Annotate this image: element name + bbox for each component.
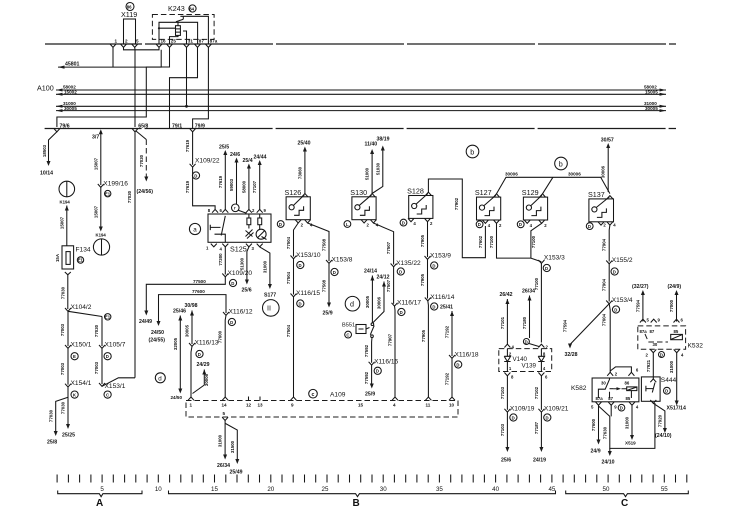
svg-text:D: D — [478, 222, 481, 227]
svg-text:86: 86 — [127, 4, 132, 9]
svg-text:77107: 77107 — [252, 180, 257, 193]
svg-text:77508: 77508 — [322, 238, 327, 251]
svg-text:77030: 77030 — [139, 154, 144, 167]
wire 31000 to 26/34 — [224, 421, 226, 457]
node X153/1 — [99, 383, 105, 386]
svg-text:D: D — [399, 269, 402, 274]
svg-text:15A: 15A — [55, 253, 60, 262]
svg-text:d: d — [350, 300, 354, 309]
svg-text:30005: 30005 — [645, 106, 658, 111]
circle C — [345, 331, 352, 338]
svg-text:1: 1 — [190, 403, 193, 408]
wire 77600 to A109 pin14 — [224, 315, 227, 397]
svg-text:77103: 77103 — [500, 386, 505, 399]
svg-text:55: 55 — [661, 486, 668, 493]
K243 internal: coil feed with junction dot — [158, 27, 160, 29]
svg-text:31500: 31500 — [230, 440, 235, 453]
wire 77003 — [67, 348, 69, 384]
K532 bottom terminals — [650, 349, 656, 352]
svg-text:b: b — [559, 159, 563, 168]
svg-text:79/1: 79/1 — [172, 123, 182, 129]
svg-text:77592: 77592 — [364, 371, 369, 384]
svg-text:77602: 77602 — [478, 235, 483, 248]
wire 77907 to A109 pin4 — [394, 306, 397, 397]
wire 77905 — [427, 259, 429, 298]
svg-text:38/19: 38/19 — [377, 137, 390, 143]
svg-text:F134: F134 — [76, 247, 91, 254]
svg-text:77600: 77600 — [192, 289, 205, 294]
svg-text:X153/3: X153/3 — [544, 255, 565, 262]
svg-text:65/8: 65/8 — [138, 123, 148, 129]
wire 77504 to A109 pin9 — [293, 297, 295, 397]
svg-text:35: 35 — [436, 486, 443, 493]
svg-text:5: 5 — [100, 486, 104, 493]
circle 84 — [189, 5, 196, 12]
K243 internal: coil to pin 25 — [170, 35, 179, 44]
node X154/1 — [65, 384, 71, 387]
svg-text:40: 40 — [492, 486, 499, 493]
circle E1 — [105, 314, 111, 320]
wire 77504 pin2 — [294, 223, 299, 257]
svg-text:X116/15: X116/15 — [296, 290, 320, 297]
svg-text:30/98: 30/98 — [185, 303, 198, 309]
svg-text:77300: 77300 — [218, 253, 223, 266]
svg-text:77101: 77101 — [500, 316, 505, 329]
svg-text:D: D — [588, 224, 591, 229]
wire 77594 X153/4 to 32/28 — [570, 304, 609, 345]
svg-text:20: 20 — [267, 486, 274, 493]
svg-text:31000: 31000 — [218, 434, 223, 447]
wire 77100 pin2 to X153/3 — [531, 223, 542, 258]
svg-text:77102: 77102 — [534, 386, 539, 399]
svg-text:D: D — [546, 415, 549, 420]
svg-text:S444: S444 — [661, 377, 677, 384]
svg-text:K194: K194 — [96, 233, 107, 238]
control unit S125 — [208, 214, 271, 242]
svg-text:X116/16: X116/16 — [374, 358, 398, 365]
node X153/8 — [326, 260, 332, 263]
svg-text:59003: 59003 — [229, 178, 234, 191]
S125 internals transistor — [210, 225, 220, 230]
svg-text:E: E — [73, 354, 76, 359]
wire 77592 to X116/16 — [371, 338, 373, 363]
svg-text:77600: 77600 — [591, 418, 596, 431]
wire 59003 to 24/6 — [236, 161, 238, 204]
svg-text:a: a — [193, 226, 197, 233]
svg-text:D: D — [525, 339, 528, 344]
node X109/22 — [190, 164, 196, 167]
circle E — [71, 353, 78, 360]
svg-text:24/19: 24/19 — [533, 458, 546, 464]
node 3/7 arrow — [99, 129, 103, 134]
svg-text:X150/1: X150/1 — [71, 342, 92, 349]
A109 pin ticks — [188, 397, 194, 400]
svg-text:32/28: 32/28 — [565, 352, 578, 358]
svg-text:X104/2: X104/2 — [71, 304, 92, 311]
wire 77600 to X116/12 and 24/50 — [159, 295, 227, 323]
svg-text:A: A — [96, 498, 103, 509]
svg-text:D: D — [545, 266, 548, 271]
svg-text:D: D — [519, 222, 522, 227]
wire 77107 pin9 to 24/44 — [259, 164, 261, 210]
S128 bottom terminals — [400, 219, 407, 226]
circle D — [104, 353, 111, 360]
svg-text:X519: X519 — [625, 441, 636, 446]
node X199/16 — [98, 184, 104, 187]
S125 lamp — [256, 229, 266, 239]
wire 73060 to 25/40 — [304, 150, 306, 194]
node X116/14 — [425, 298, 431, 301]
svg-text:A100: A100 — [37, 84, 54, 93]
K243 switch arm — [176, 19, 183, 26]
wire 15007 down arrow — [100, 187, 102, 228]
sensor B551 box — [356, 325, 366, 334]
svg-text:E1: E1 — [105, 191, 111, 196]
switch S137 — [589, 199, 614, 222]
svg-text:87a: 87a — [640, 329, 648, 334]
svg-text:X116/18: X116/18 — [455, 352, 479, 359]
svg-text:L: L — [346, 222, 349, 227]
section bracket B — [169, 491, 556, 497]
svg-text:87a: 87a — [596, 396, 604, 401]
svg-text:S126: S126 — [285, 188, 302, 197]
svg-text:77630: 77630 — [602, 426, 607, 439]
S137 bottom terminals — [586, 223, 593, 230]
svg-text:84: 84 — [189, 6, 194, 11]
wire 58000 pin2 to 25/4 — [248, 167, 250, 209]
wire 77103 to 25/6 — [506, 412, 508, 448]
switch S444 — [641, 377, 660, 401]
wire 15007 to F134 — [66, 206, 68, 246]
node X116/15 — [291, 294, 297, 297]
svg-text:45: 45 — [548, 486, 555, 493]
svg-text:58000: 58000 — [241, 180, 246, 193]
svg-text:D: D — [402, 220, 405, 225]
svg-text:D: D — [194, 173, 197, 178]
circle E1 — [105, 190, 111, 196]
svg-text:25/46: 25/46 — [173, 309, 186, 315]
wire 77003 — [101, 348, 103, 384]
svg-text:K243: K243 — [168, 4, 185, 13]
svg-text:31000: 31000 — [262, 260, 267, 273]
svg-text:77504: 77504 — [286, 271, 291, 284]
svg-text:25/41: 25/41 — [440, 305, 453, 311]
svg-text:77030: 77030 — [61, 286, 66, 299]
S126 bottom terminals — [277, 221, 284, 228]
svg-text:86: 86 — [625, 381, 630, 386]
wire 30005 — [56, 110, 666, 112]
svg-text:24/10: 24/10 — [602, 460, 615, 466]
svg-text:D: D — [665, 389, 668, 394]
wire 77504 — [293, 259, 295, 295]
svg-text:X153/4: X153/4 — [612, 297, 633, 304]
svg-text:77619: 77619 — [218, 175, 223, 188]
svg-text:77100: 77100 — [531, 235, 536, 248]
svg-text:(32/27): (32/27) — [632, 284, 649, 290]
switch S128 — [409, 196, 433, 219]
wire 77103 to X109/19 — [506, 376, 508, 410]
node X135/22 — [391, 264, 397, 267]
wire 77630 loop to S444 and 24/10 — [599, 403, 655, 448]
svg-text:D: D — [231, 281, 234, 286]
svg-text:D: D — [299, 301, 302, 306]
wire 15007 from 3/7 — [100, 131, 102, 185]
node X153/4 — [606, 301, 612, 304]
wire 77508 pin4 to X153/8 — [308, 223, 329, 261]
S129 bottom terminals — [517, 221, 524, 228]
svg-text:D: D — [432, 263, 435, 268]
circle D inline — [523, 339, 529, 345]
svg-text:79/9: 79/9 — [195, 123, 205, 129]
svg-text:30005: 30005 — [64, 106, 77, 111]
svg-text:30: 30 — [653, 342, 658, 347]
svg-text:D: D — [512, 415, 515, 420]
S125 diode — [246, 230, 254, 239]
svg-text:77902: 77902 — [454, 197, 459, 210]
circle d left — [155, 373, 165, 383]
svg-text:87a: 87a — [210, 39, 218, 44]
svg-text:V139: V139 — [522, 363, 537, 370]
svg-text:K532: K532 — [688, 343, 704, 350]
svg-text:X105/7: X105/7 — [105, 342, 126, 349]
svg-text:1: 1 — [115, 39, 118, 44]
svg-text:10: 10 — [155, 486, 162, 493]
svg-text:25/9: 25/9 — [323, 311, 333, 317]
svg-text:S128: S128 — [407, 187, 424, 196]
svg-text:25/8: 25/8 — [47, 440, 57, 446]
S127 bottom terminals — [476, 221, 483, 228]
wire 77030 X105/7 branch — [101, 317, 103, 347]
svg-text:30005: 30005 — [185, 324, 190, 337]
svg-text:11: 11 — [426, 403, 431, 408]
svg-text:77030: 77030 — [127, 190, 132, 203]
svg-text:D: D — [620, 406, 623, 411]
wire 77904 pin4 to X155/2 — [608, 225, 611, 261]
svg-text:77905: 77905 — [421, 329, 426, 342]
svg-text:24/29: 24/29 — [197, 362, 210, 368]
node X116/12 — [223, 312, 229, 315]
svg-text:26/42: 26/42 — [500, 292, 513, 298]
svg-text:X116/17: X116/17 — [397, 299, 421, 306]
node X153/9 — [425, 256, 431, 259]
svg-text:D: D — [400, 310, 403, 315]
wire 30006 bus to switches — [497, 177, 610, 194]
switch S127 — [477, 197, 501, 220]
node X155/2 — [606, 261, 612, 264]
svg-text:77000: 77000 — [669, 299, 674, 312]
svg-text:15002: 15002 — [64, 90, 77, 95]
section bracket C — [566, 491, 689, 497]
svg-text:77604: 77604 — [602, 313, 607, 326]
node X150/1 — [65, 345, 71, 348]
S125 resistor 2 — [258, 218, 262, 225]
svg-text:10/14: 10/14 — [40, 171, 53, 177]
svg-text:S127: S127 — [475, 188, 492, 197]
wire 31000 to X517/14 — [676, 353, 678, 403]
svg-text:2: 2 — [125, 39, 128, 44]
wire 77600 to 24/9 — [598, 405, 600, 441]
node X153/3 — [538, 260, 544, 263]
switch S129 — [523, 197, 547, 220]
circle d mid — [345, 296, 360, 311]
svg-text:77507: 77507 — [386, 279, 391, 292]
svg-text:30005: 30005 — [365, 295, 370, 308]
fuse F134 — [62, 246, 74, 269]
svg-text:S129: S129 — [522, 188, 539, 197]
svg-text:D: D — [614, 307, 617, 312]
svg-text:II: II — [267, 304, 271, 313]
svg-text:B: B — [353, 498, 360, 509]
svg-text:77507: 77507 — [386, 241, 391, 254]
svg-text:24/6: 24/6 — [230, 152, 240, 158]
wire 31000 — [56, 105, 666, 107]
svg-text:(24/55): (24/55) — [149, 338, 166, 344]
node 65/8 tick — [132, 129, 138, 132]
terminal ticks on top bus — [110, 44, 116, 47]
wire 77030 fuse to X104/2 — [65, 272, 71, 275]
svg-text:d: d — [158, 375, 162, 382]
svg-text:30006: 30006 — [377, 296, 382, 309]
svg-text:X116/14: X116/14 — [430, 294, 454, 301]
svg-text:E1: E1 — [105, 315, 111, 320]
node X116/18 — [449, 355, 455, 358]
svg-text:77904: 77904 — [601, 238, 606, 251]
circle D — [192, 172, 199, 179]
svg-text:77504: 77504 — [286, 324, 291, 337]
svg-text:73060: 73060 — [297, 166, 302, 179]
node X116/17 — [392, 303, 398, 306]
svg-text:S137: S137 — [588, 190, 605, 199]
svg-text:16: 16 — [161, 39, 167, 44]
branch to pin6 — [610, 367, 631, 373]
S125 bottom terminals — [211, 244, 217, 247]
K243 relay coil — [176, 26, 181, 36]
svg-text:24/50: 24/50 — [151, 330, 164, 336]
circle b — [466, 145, 479, 158]
svg-text:(24/9): (24/9) — [668, 284, 682, 290]
control unit A109 — [186, 401, 458, 418]
wire pin87 down to 79/1 — [170, 47, 198, 128]
svg-text:25/6: 25/6 — [501, 458, 511, 464]
circle b — [555, 157, 568, 170]
circle II — [263, 300, 280, 317]
svg-text:X153/8: X153/8 — [332, 257, 353, 264]
svg-text:77030: 77030 — [48, 409, 53, 422]
svg-text:24/50: 24/50 — [171, 395, 183, 400]
svg-text:C: C — [106, 392, 109, 397]
svg-text:26/34: 26/34 — [217, 463, 230, 469]
svg-text:31000: 31000 — [625, 416, 630, 429]
A109 pin 5 bottom — [222, 417, 228, 420]
svg-text:87: 87 — [199, 39, 205, 44]
wire 18503 — [49, 132, 57, 163]
wire 51300 pin3 to 25/6 — [247, 247, 249, 281]
K243 internal: pin16 riser and bridge to pin 87 — [159, 22, 198, 44]
wire 77619 to S125 pin 8 — [193, 167, 216, 209]
wire pin2 to pin16 U-link — [124, 47, 160, 50]
svg-text:X153/9: X153/9 — [430, 253, 451, 260]
svg-text:X116/13: X116/13 — [195, 340, 219, 347]
svg-text:77103: 77103 — [500, 423, 505, 436]
wire 77507 — [393, 267, 395, 304]
svg-text:D: D — [376, 369, 379, 374]
node X104/2 — [65, 308, 71, 311]
wire pin87a down to 79/9 — [193, 47, 209, 128]
node 79/9 tick — [190, 129, 196, 132]
svg-text:25/6: 25/6 — [242, 288, 252, 294]
circle a — [189, 223, 200, 234]
svg-text:24/9: 24/9 — [591, 449, 601, 455]
wire 77921 K532 to S444 — [652, 353, 654, 380]
svg-text:K194: K194 — [60, 200, 71, 205]
svg-text:77500: 77500 — [193, 279, 206, 284]
wire 77902 S128 top to S127 pin4 — [428, 179, 485, 258]
svg-text:B551: B551 — [342, 323, 355, 329]
svg-text:10: 10 — [449, 403, 455, 408]
wire 45801 to left arrow — [58, 50, 161, 67]
wire 31500 to 25/49 — [226, 424, 238, 461]
svg-text:c: c — [312, 392, 315, 398]
svg-text:14: 14 — [222, 403, 228, 408]
section bracket A — [58, 491, 142, 497]
svg-text:X119: X119 — [121, 10, 137, 19]
wire 77604 X153/4 to K582 — [609, 304, 610, 373]
circle r at pin2 — [232, 204, 240, 212]
svg-text:18503: 18503 — [42, 144, 47, 157]
svg-text:77921: 77921 — [646, 359, 651, 372]
wire 77003 — [67, 311, 69, 346]
relay K582 — [592, 378, 639, 402]
svg-text:X109/22: X109/22 — [195, 158, 220, 165]
svg-text:E1: E1 — [78, 258, 84, 263]
svg-text:11/40: 11/40 — [365, 142, 378, 148]
bus line second (partition) — [45, 128, 676, 130]
relay K243 — [152, 15, 214, 40]
S125 resistor 1 — [247, 218, 251, 225]
wire 31000 to X519 — [631, 405, 633, 437]
svg-text:(24/56): (24/56) — [137, 189, 154, 195]
svg-text:77508: 77508 — [322, 279, 327, 292]
svg-text:77030: 77030 — [94, 324, 99, 337]
node X116/16 — [369, 362, 375, 365]
svg-text:30006: 30006 — [505, 171, 518, 176]
svg-text:77592: 77592 — [364, 344, 369, 357]
svg-text:5: 5 — [223, 411, 226, 416]
wire 77030 long from 65/8 — [134, 132, 136, 378]
svg-text:D: D — [299, 263, 302, 268]
wire 77507 pin4 to X135/22 — [373, 223, 393, 265]
svg-text:51300: 51300 — [239, 257, 244, 270]
svg-text:51000: 51000 — [365, 167, 370, 180]
svg-text:25/49: 25/49 — [230, 470, 243, 476]
wire dashed to (24/56) — [136, 131, 146, 140]
svg-text:D: D — [106, 354, 109, 359]
svg-text:15007: 15007 — [60, 216, 65, 229]
svg-text:45801: 45801 — [65, 62, 80, 68]
wire 58002 — [56, 89, 666, 91]
node 79/6 tick — [54, 129, 60, 132]
wire 77619 from 79/9 — [192, 132, 194, 165]
node X116/13 — [189, 343, 195, 346]
svg-text:25/4: 25/4 — [243, 158, 253, 164]
S125 top terminals — [212, 209, 218, 212]
svg-text:X154/1: X154/1 — [71, 380, 92, 387]
svg-text:77192: 77192 — [445, 372, 450, 385]
wire 77905 pin2 to X153/9 — [427, 222, 429, 257]
svg-text:15007: 15007 — [93, 157, 98, 170]
svg-text:X135/22: X135/22 — [396, 260, 421, 267]
svg-text:77619: 77619 — [185, 139, 190, 152]
